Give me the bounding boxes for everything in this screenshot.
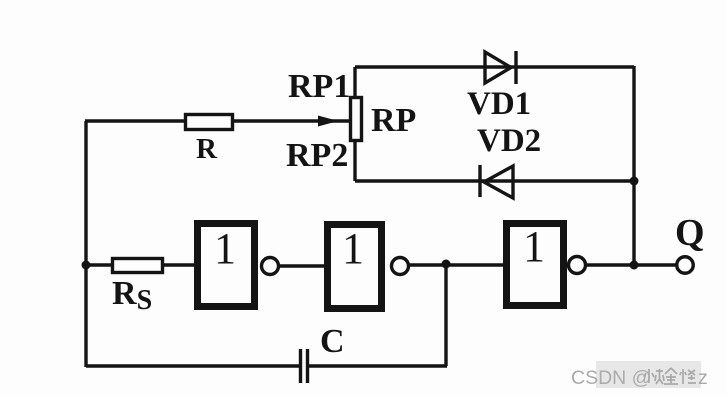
wire: RP top lead [353, 67, 356, 96]
svg-text:z: z [698, 367, 708, 389]
terminal Q [677, 257, 694, 274]
watermark glyph lian [644, 369, 664, 384]
wire: top-left horizontal to R and RP wiper [85, 119, 349, 122]
svg-text:VD2: VD2 [477, 123, 541, 159]
gate U3 (inverter box) [507, 224, 564, 306]
svg-text:1: 1 [523, 222, 545, 271]
junction: left bus and Rs [82, 261, 91, 270]
wire: capacitor branch vertical [444, 264, 447, 366]
wire: right vertical bus [632, 66, 635, 265]
svg-text:Q: Q [675, 212, 705, 254]
wire: Rs to gate 1 input [162, 263, 197, 266]
wire: top horizontal (VD1 branch) [355, 65, 634, 68]
svg-text:RP2: RP2 [286, 137, 348, 174]
svg-text:1: 1 [342, 224, 364, 273]
wire: U2 bubble to gate 3 input [409, 263, 508, 266]
wire: left bus to Rs [86, 263, 113, 266]
bubble of U3 [569, 257, 586, 274]
wire: bottom horizontal right of capacitor [309, 364, 447, 367]
svg-text:VD1: VD1 [467, 86, 531, 122]
junction: VD2 line and right bus [630, 177, 639, 186]
potentiometer RP body [351, 98, 362, 141]
watermark glyph jin [664, 368, 678, 384]
wire: U1 bubble to gate 2 [279, 264, 328, 267]
resistor R [186, 115, 233, 130]
resistor Rs [113, 259, 163, 273]
junction: output line and right bus [630, 261, 639, 270]
svg-text:C: C [320, 323, 345, 360]
wire: bottom horizontal of top block (VD2 branch) [355, 179, 634, 182]
wire: bottom horizontal left of capacitor [86, 364, 299, 367]
wire: U3 bubble to output Q [586, 263, 678, 266]
diode VD2 [480, 165, 513, 198]
svg-text:R: R [196, 133, 218, 165]
gate U2 (inverter box) [328, 225, 382, 309]
gate U1 (inverter box) [198, 224, 255, 307]
wire: left vertical bus [84, 121, 87, 367]
diode VD1 [485, 51, 516, 84]
watermark background [596, 361, 701, 388]
watermark glyph guai [680, 369, 696, 384]
svg-text:1: 1 [214, 224, 236, 273]
bubble of U2 [392, 258, 409, 275]
svg-text:RP1: RP1 [288, 68, 350, 105]
wire: RP bottom lead [353, 142, 356, 181]
bubble of U1 [262, 258, 279, 275]
wiper arrowhead into RP [318, 116, 338, 127]
svg-text:RS: RS [112, 275, 152, 316]
svg-text:RP: RP [371, 102, 416, 139]
capacitor C plates [301, 349, 308, 383]
svg-text:CSDN @: CSDN @ [571, 367, 651, 389]
junction: node to capacitor branch [442, 260, 451, 269]
